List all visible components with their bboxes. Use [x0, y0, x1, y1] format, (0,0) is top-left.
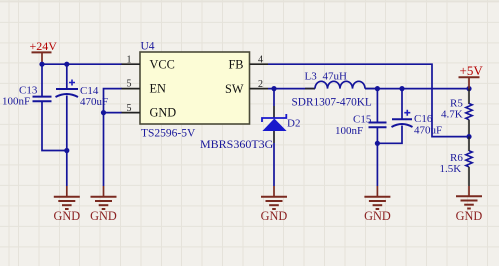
svg-text:+24V: +24V [30, 39, 58, 53]
svg-text:U4: U4 [141, 41, 155, 53]
svg-text:+5V: +5V [460, 63, 484, 78]
node B junction at 66.8,64 [64, 62, 69, 67]
wire FB to divider [268, 64, 467, 136]
node A junction at 42,64 [39, 62, 44, 67]
pin 5 EN [122, 79, 167, 96]
wire +24V horizontal to VCC [42, 63, 122, 65]
ground GND2 [90, 186, 117, 223]
svg-text:TS2596-5V: TS2596-5V [141, 128, 196, 140]
svg-text:1: 1 [127, 55, 132, 66]
junction C15/C16 bottom [375, 141, 380, 146]
wire C16 bottom rail [377, 126, 402, 144]
inductor L3 [292, 71, 376, 109]
svg-text:47uH: 47uH [323, 71, 348, 83]
svg-text:GND: GND [150, 106, 177, 120]
diode D2 schottky [200, 114, 300, 151]
junction +5V/R5 [466, 86, 471, 91]
capacitor C13 [2, 85, 52, 108]
wire C14 top [66, 64, 68, 89]
pin 1 VCC [122, 55, 175, 72]
junction C15 top [375, 86, 380, 91]
wire to GND1 [66, 151, 68, 187]
svg-text:2: 2 [258, 79, 263, 90]
resistor R6 [440, 137, 473, 186]
svg-text:EN: EN [150, 82, 167, 96]
pin 5 GND [122, 103, 177, 120]
power port +5V [459, 63, 484, 89]
pin 4 FB [228, 54, 268, 71]
wire C13 top [41, 64, 43, 96]
ground GND3 [261, 186, 288, 223]
svg-text:L3: L3 [305, 71, 318, 83]
capacitor C15 [335, 113, 387, 137]
svg-text:D2: D2 [287, 117, 300, 129]
ground GND5 [456, 186, 483, 223]
svg-text:5: 5 [127, 79, 132, 90]
svg-text:GND: GND [364, 209, 391, 223]
svg-text:GND: GND [90, 209, 117, 223]
ground GND4 [364, 186, 391, 223]
wire C13 bottom [42, 101, 67, 150]
svg-text:GND: GND [261, 209, 288, 223]
capacitor C16 polarized [392, 110, 443, 137]
resistor R5 [441, 89, 472, 137]
svg-text:4.7K: 4.7K [441, 108, 463, 120]
junction FB divider [466, 134, 471, 139]
svg-text:470uF: 470uF [414, 125, 442, 137]
wire C15 top [376, 89, 378, 123]
svg-text:SW: SW [225, 82, 244, 96]
wire D2 top [273, 89, 275, 106]
pin 2 SW [225, 79, 268, 96]
power port +24V [30, 39, 58, 64]
svg-text:C16: C16 [414, 113, 433, 125]
wire C16 top [401, 89, 403, 120]
svg-text:5: 5 [127, 103, 132, 114]
svg-text:GND: GND [53, 209, 80, 223]
wire EN from box [104, 89, 123, 113]
svg-text:SDR1307-470KL: SDR1307-470KL [292, 97, 372, 109]
wire C15 bottom [376, 127, 378, 143]
junction EN/GND [101, 110, 106, 115]
junction at bottom rail [64, 148, 69, 153]
wire C14 bottom [66, 96, 68, 151]
wire L3 to +5V node [365, 88, 469, 90]
ground GND1 [53, 186, 80, 223]
wire SW line [268, 88, 315, 90]
svg-text:MBRS360T3G: MBRS360T3G [200, 137, 274, 151]
svg-text:C15: C15 [353, 113, 372, 125]
capacitor C14 polarized [56, 80, 109, 109]
svg-text:4: 4 [258, 54, 263, 65]
wire to GND4 [376, 143, 378, 186]
svg-text:1.5K: 1.5K [440, 163, 462, 175]
svg-text:VCC: VCC [150, 58, 175, 72]
svg-text:100nF: 100nF [335, 125, 363, 137]
svg-text:FB: FB [228, 58, 243, 72]
junction D2 top [271, 86, 276, 91]
svg-text:100nF: 100nF [2, 96, 30, 108]
wire to GND2 [103, 113, 105, 186]
junction C16 top [399, 86, 404, 91]
IC U4 regulator body [140, 41, 250, 140]
wire D2 bottom to GND3 [273, 131, 275, 143]
svg-text:GND: GND [456, 209, 483, 223]
